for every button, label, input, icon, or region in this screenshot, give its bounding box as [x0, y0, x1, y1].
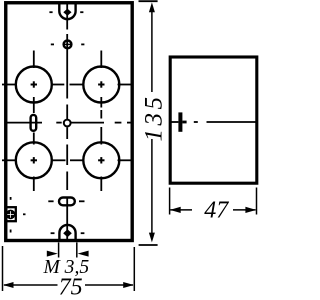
svg-text:135: 135 [140, 94, 167, 142]
middle row horizontal centerline [7, 122, 134, 124]
47 dimension line [170, 209, 255, 211]
135 bottom arrowhead [149, 233, 155, 243]
M3,5 left arrow [47, 251, 58, 257]
47 right arrowhead [245, 207, 256, 213]
hole center crosses [31, 81, 105, 163]
side view lug tick [182, 121, 186, 124]
top tab centerline dashes [49, 11, 83, 13]
47 dimension extension lines [170, 188, 257, 215]
135 dimension line [151, 12, 153, 234]
small hole centerline dashes [51, 43, 85, 45]
screw slots [7, 213, 14, 215]
svg-text:47: 47 [204, 197, 229, 223]
135 dimension ticks [139, 1, 158, 245]
hole top-left circle [16, 67, 52, 103]
top row horizontal centerline [2, 84, 134, 86]
hole top-right circle [83, 67, 119, 103]
M3,5 right arrow [78, 251, 89, 257]
screw square bottom-left [6, 207, 16, 221]
svg-text:75: 75 [59, 274, 83, 300]
side view screw lug [178, 112, 182, 131]
75 dimension line [4, 284, 133, 286]
small hole top center [64, 41, 72, 49]
75 right arrowhead [123, 282, 134, 288]
left column vertical centerlines [33, 51, 35, 192]
bottom slot centerline dashes [48, 200, 84, 202]
bottom row horizontal centerline [2, 159, 134, 161]
75 left arrowhead [3, 282, 14, 288]
front view outline [6, 3, 132, 241]
M3,5 extension lines [59, 242, 77, 257]
center axis vertical [66, 3, 68, 241]
135 top arrowhead [149, 2, 155, 12]
47 left arrowhead [170, 207, 181, 213]
horizontal slot bottom center [59, 198, 75, 206]
vertical slot left middle [31, 115, 37, 131]
screw head filled [6, 210, 16, 220]
bottom mounting tab [59, 225, 75, 241]
top mounting tab [59, 2, 75, 19]
small hole cross [63, 43, 71, 45]
side view outline [170, 57, 257, 183]
right column vertical centerlines [100, 51, 102, 192]
hole bottom-right circle [83, 142, 119, 178]
hole bottom-left circle [16, 142, 52, 178]
small hole center middle [64, 120, 71, 127]
top tab hole (filled diamond) [63, 9, 71, 16]
bottom tab centerline dashes [51, 232, 85, 234]
side view centerline [171, 121, 257, 123]
75 dimension extension lines [3, 246, 135, 291]
bottom tab hole (filled diamond) [63, 229, 72, 237]
screw centerline dashes [11, 197, 26, 233]
